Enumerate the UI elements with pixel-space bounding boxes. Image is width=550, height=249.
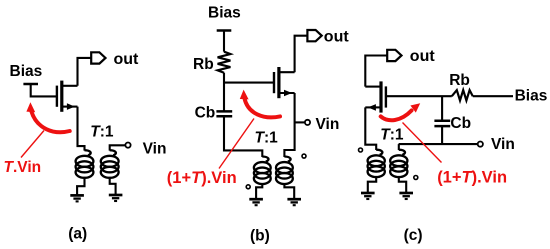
svg-text:(b): (b): [250, 228, 270, 245]
wire Cb-to-L1 (b): [224, 116, 262, 157]
polarity dot (c) right: [414, 176, 418, 180]
transistor M1 (a): [56, 86, 58, 107]
wire L1-to-ground (c): [368, 177, 376, 193]
svg-text:out: out: [324, 29, 350, 46]
svg-text:Vin: Vin: [316, 116, 340, 133]
svg-text:Rb: Rb: [193, 56, 214, 73]
Vin terminal (a): [125, 143, 130, 148]
ground (c) right: [399, 192, 413, 195]
out port (c): [387, 50, 401, 61]
wire bias-to-gate (a): [31, 84, 57, 96]
out port (b): [307, 30, 321, 41]
svg-text:Bias: Bias: [10, 63, 43, 80]
transistor M3 (c): [385, 86, 387, 107]
polarity dot (b) left: [246, 185, 250, 189]
svg-text:T.Vin: T.Vin: [4, 159, 42, 176]
wire drain-to-out (c): [365, 56, 387, 87]
transformer secondary L2 (c): [399, 150, 405, 155]
svg-text:Rb: Rb: [449, 72, 470, 89]
transformer primary L1 (b): [262, 157, 268, 162]
svg-text:T:1: T:1: [90, 124, 114, 141]
svg-text:(1+T).Vin: (1+T).Vin: [167, 169, 237, 187]
capacitor Cb (c): [434, 120, 450, 123]
resistor Rb (b): [218, 52, 231, 73]
wire source-to-Vin (b): [295, 121, 305, 123]
wire L2-to-Vin-line (c): [398, 144, 400, 150]
svg-text:Vin: Vin: [491, 136, 515, 153]
polarity dot (b) right: [302, 154, 306, 158]
svg-text:out: out: [410, 48, 436, 65]
svg-text:out: out: [114, 51, 140, 68]
wire source-down (c): [365, 107, 376, 150]
wire node-to-gate (b): [224, 82, 274, 84]
svg-text:Cb: Cb: [450, 115, 471, 132]
transformer primary L1 (a): [85, 150, 91, 155]
svg-text:Cb: Cb: [195, 104, 216, 121]
svg-text:Vin: Vin: [143, 141, 167, 158]
ground (b) right: [287, 198, 301, 201]
ground (c) left: [361, 192, 375, 195]
wire L1-to-ground (a): [77, 177, 84, 195]
wire source-down (b): [284, 93, 294, 157]
polarity dot (c) left: [359, 148, 363, 152]
bias terminal bar (a): [23, 83, 38, 86]
svg-text:Bias: Bias: [208, 5, 241, 22]
wire L2-to-ground (a): [110, 177, 116, 195]
out port (a): [91, 52, 105, 63]
wire Rb-to-node (b): [223, 73, 225, 112]
wire L2-to-ground (c): [399, 177, 406, 193]
ground (a) right: [109, 194, 123, 197]
svg-text:(1+T).Vin: (1+T).Vin: [437, 168, 507, 186]
transformer secondary L2 (a): [110, 150, 116, 155]
red leader line (b): [219, 119, 254, 169]
wire Rb-to-Bias (c): [473, 95, 513, 97]
wire gate-to-node (c): [386, 95, 452, 97]
wire node-to-Cb (c): [441, 96, 443, 121]
transistor M2 (b): [273, 72, 275, 93]
wire L1-to-ground (b): [256, 184, 262, 199]
red feedback arrow (b): [244, 98, 280, 118]
svg-text:Bias: Bias: [515, 88, 548, 105]
transformer secondary L2 (b): [284, 157, 290, 162]
transformer primary L1 (c): [376, 150, 382, 155]
wire Cb-to-Vin-line (c): [441, 126, 443, 144]
wire Vin line (c): [399, 143, 478, 145]
wire bias-to-Rb (b): [223, 31, 225, 52]
bias terminal bar (b): [217, 29, 232, 32]
red feedback arrow (c): [381, 111, 412, 121]
Vin terminal (c): [478, 142, 483, 147]
wire source-down (a): [78, 107, 85, 151]
resistor Rb (c): [452, 90, 473, 100]
wire drain-to-out (b): [295, 36, 308, 72]
ground (a) left: [70, 194, 84, 197]
wire L2-to-Vin (a): [110, 145, 126, 150]
svg-text:T:1: T:1: [380, 127, 404, 144]
capacitor Cb (b): [216, 110, 232, 113]
wire L2-to-ground (b): [284, 184, 294, 199]
svg-text:(a): (a): [68, 226, 87, 243]
red leader line (c): [403, 123, 442, 163]
red feedback arrow (a): [31, 111, 69, 132]
svg-text:T:1: T:1: [255, 130, 279, 147]
Vin terminal (b): [305, 120, 310, 125]
wire drain-to-out (a): [78, 58, 92, 86]
red leader line (a): [21, 131, 44, 158]
svg-text:(c): (c): [404, 227, 423, 244]
ground (b) left: [249, 198, 263, 201]
